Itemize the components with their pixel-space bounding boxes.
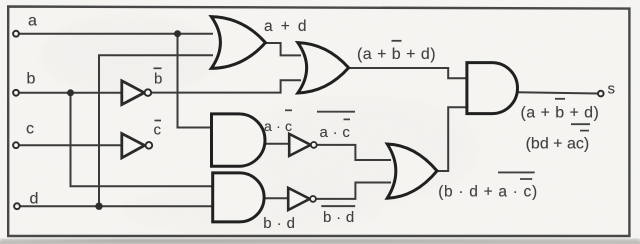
label output s bbox=[608, 80, 616, 97]
AND gate AND2 (b.d) bbox=[213, 173, 264, 222]
inverter c (NOT gate) bbox=[122, 134, 152, 158]
label b-bar at inverter output bbox=[154, 68, 163, 87]
label input a bbox=[28, 13, 37, 30]
wire c horizontal bbox=[16, 144, 123, 146]
label (bd + not(a.cbar)) under AND4 output line 2 bbox=[526, 124, 590, 152]
label a.cbar above AND1 bbox=[264, 110, 292, 134]
input terminal b bbox=[13, 90, 19, 96]
junction dot on a bbox=[174, 30, 181, 37]
label input c bbox=[26, 121, 34, 138]
input terminal d bbox=[14, 203, 20, 209]
wire AND1 out to inv3 bbox=[264, 143, 291, 145]
junction dot on d bbox=[95, 203, 102, 210]
wire inv4 out to OR3 bbox=[317, 183, 391, 199]
junction dot on b bbox=[67, 89, 74, 96]
OR gate OR1 (a+d) bbox=[211, 17, 265, 69]
AND gate AND4 (final, output s) bbox=[467, 63, 518, 114]
label input d bbox=[30, 191, 39, 208]
input terminal a bbox=[13, 31, 19, 37]
label not(b.d) after inv4 bbox=[321, 206, 355, 226]
label a + d bbox=[264, 18, 308, 35]
AND gate AND1 (a.cnot) bbox=[212, 114, 266, 166]
wire inv3 out to OR3 bbox=[317, 145, 391, 160]
wire OR1 out to OR2 bbox=[265, 43, 301, 55]
wire a riser to AND1 bbox=[178, 34, 214, 128]
wire AND2 out to inv4 bbox=[263, 197, 289, 199]
label (a + bbar + d) under AND4 output line 1 bbox=[521, 99, 600, 122]
input terminal c bbox=[13, 142, 19, 148]
OR gate OR3 (b.d + not(a.cnot)) bbox=[387, 144, 437, 198]
wire b riser to AND2 bbox=[71, 93, 215, 187]
wire b horizontal bbox=[16, 92, 123, 94]
inverter after AND1 (inv3) bbox=[289, 134, 316, 156]
output terminal s bbox=[598, 91, 604, 97]
label c-bar at inverter output bbox=[154, 121, 162, 139]
wire AND4 out to terminal s bbox=[517, 92, 598, 93]
wire a horizontal bbox=[16, 33, 213, 35]
wire d horizontal bbox=[17, 205, 214, 207]
bottom scan band bbox=[0, 239, 640, 244]
wire OR2 out to AND4 bbox=[348, 68, 468, 78]
OR gate OR2 (a+bnot+d) bbox=[298, 43, 349, 93]
wire bnot to OR2 bbox=[151, 80, 301, 92]
label not(a.cbar) after inv3 bbox=[317, 112, 355, 141]
label input b bbox=[27, 70, 36, 87]
label (a + bbar + d) at OR2 output bbox=[357, 41, 436, 63]
inverter after AND2 (inv4) bbox=[288, 188, 316, 210]
inverter b (NOT gate) bbox=[122, 81, 151, 105]
wire OR3 out to AND4 bbox=[437, 107, 469, 171]
wire d riser to OR1 bbox=[99, 55, 213, 206]
label (b.d + not(a.cbar)) at OR3 bbox=[438, 172, 538, 200]
label b.d below AND2 bbox=[263, 215, 295, 232]
